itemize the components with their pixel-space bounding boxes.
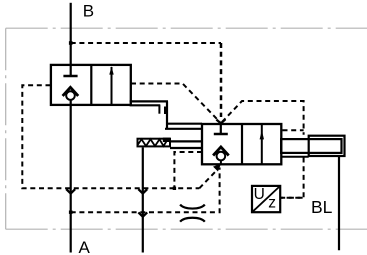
node junction pilot cross bbox=[173, 187, 176, 190]
enclosure frame top (dash-dot gray) bbox=[6, 27, 367, 29]
valve V1 cell divider bbox=[90, 65, 92, 105]
valve V1 check valve ball bbox=[66, 91, 75, 100]
svg-text:z: z bbox=[268, 195, 276, 212]
channel inner tick bbox=[158, 105, 160, 113]
actuator rectangle R2 bbox=[309, 136, 345, 156]
pilot line from V1 right side diagonal to V2 top (dashed) bbox=[131, 84, 220, 122]
valve V2 check valve seat bbox=[213, 147, 229, 156]
amplifier U/Z box bbox=[252, 186, 280, 212]
pilot line V2 right tap (dashed) bbox=[283, 129, 304, 131]
pilot arrow chevron into V2 top bbox=[216, 119, 225, 123]
node junction on A wire bbox=[69, 211, 73, 214]
svg-text:B: B bbox=[83, 2, 94, 21]
svg-text:A: A bbox=[79, 238, 91, 255]
valve V1 blocked port stub bbox=[70, 65, 72, 75]
valve V2 check valve bottom stub bbox=[220, 160, 222, 164]
valve V2 body bbox=[202, 124, 281, 164]
channel lower bottom line bbox=[165, 128, 202, 130]
throttle restriction top arc bbox=[180, 205, 205, 209]
valve V1 check valve seat bbox=[63, 87, 79, 96]
wire A vertical bbox=[70, 100, 72, 253]
valve V1 flow arrow line bbox=[111, 67, 113, 105]
actuator rectangle R1 bbox=[281, 139, 341, 153]
valve V2 lower right port line bbox=[281, 156, 309, 158]
channel V1 to V2 upper top line bbox=[130, 100, 168, 102]
spring channel top line bbox=[170, 140, 202, 142]
channel corner inner tick bbox=[164, 107, 166, 115]
channel V1 to V2 upper bottom line bbox=[130, 104, 161, 106]
flow arrow chevron on A wire bbox=[66, 189, 75, 193]
valve V2 flow arrowhead bbox=[260, 130, 264, 139]
pilot line through throttle (dashed) bbox=[71, 168, 220, 213]
pilot line from V1 left side around left (dashed) bbox=[22, 85, 199, 188]
valve V2 cell divider bbox=[241, 124, 243, 164]
valve V1 body bbox=[51, 65, 131, 105]
spring box end block bbox=[163, 138, 171, 142]
pilot line from B tap to V2 top (dashed) bbox=[71, 42, 221, 44]
valve V2 blocked port bar bbox=[214, 133, 228, 136]
enclosure frame bottom (dash-dot gray) bbox=[6, 228, 367, 230]
flow arrow chevron on A2 wire (upper) bbox=[138, 189, 147, 193]
pilot line V2 left tap down (dashed) bbox=[174, 152, 202, 188]
pilot arrow chevron into V2 bottom bbox=[214, 165, 220, 170]
amplifier diagonal bbox=[252, 186, 280, 212]
valve V2 flow arrow line bbox=[261, 125, 263, 164]
pilot line vertical down to V2 top (dashed) bbox=[220, 43, 223, 117]
spring channel bottom line bbox=[170, 147, 202, 149]
node junction on B line bbox=[69, 41, 73, 45]
flow arrow chevron on A2 wire (lower) bbox=[138, 212, 147, 216]
wire A2 vertical bbox=[142, 148, 144, 253]
enclosure frame left (dash-dot gray) bbox=[5, 28, 7, 229]
throttle restriction bottom arc bbox=[180, 218, 205, 222]
valve V1 blocked port bar bbox=[63, 75, 77, 78]
valve V2 blocked port stub bbox=[220, 124, 222, 133]
spring zigzag bbox=[138, 139, 167, 146]
pilot line right network lower segment (dashed) bbox=[281, 158, 304, 198]
channel outer vertical bbox=[166, 101, 168, 128]
wire B vertical bbox=[70, 3, 72, 65]
pilot diagonal to V2 check valve (dashed) bbox=[199, 170, 217, 188]
svg-text:BL: BL bbox=[311, 197, 333, 217]
valve V2 check valve ball bbox=[217, 152, 226, 161]
svg-text:U: U bbox=[254, 186, 265, 203]
wire from actuator down bbox=[338, 156, 340, 250]
pilot stub U/Z box right (dashed) bbox=[280, 197, 303, 199]
spring box bbox=[138, 139, 171, 147]
pilot line V2 top to right network (dashed) bbox=[222, 101, 304, 135]
valve V1 flow arrowhead bbox=[109, 66, 113, 74]
channel lower top line bbox=[167, 123, 202, 125]
